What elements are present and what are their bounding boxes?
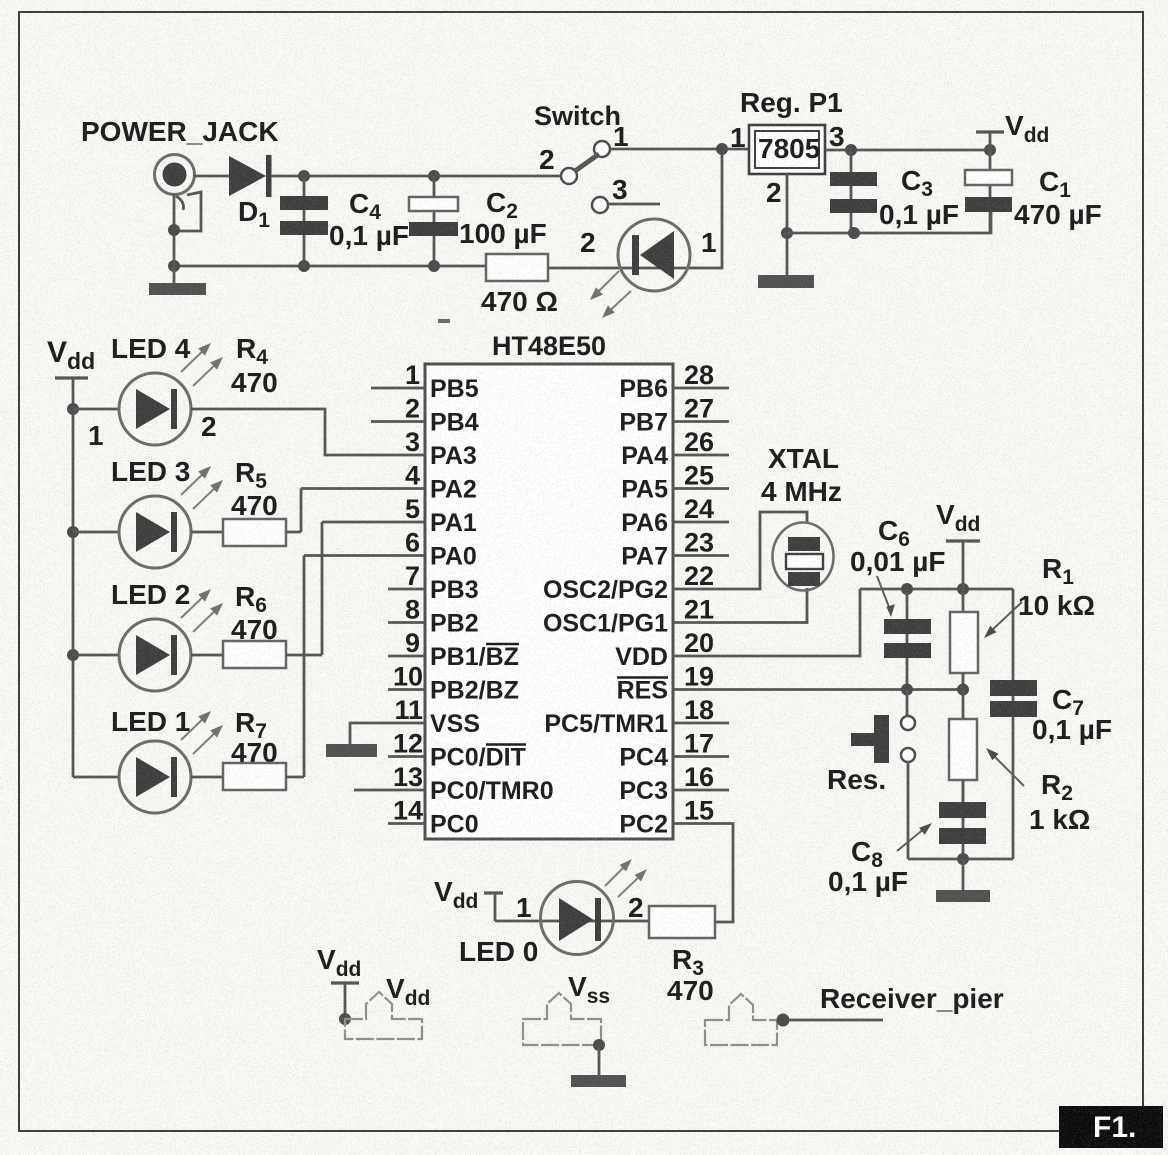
LED0 light arrows xyxy=(605,859,647,897)
wire regulator ground rail xyxy=(787,212,991,239)
ground Vss xyxy=(571,1075,626,1087)
LED4 xyxy=(73,373,191,445)
label D1 xyxy=(238,196,270,232)
arrow R2 pointer xyxy=(986,748,1024,786)
LED3 xyxy=(73,496,191,568)
wire pin15 to R3 xyxy=(673,824,733,923)
node R1 bottom xyxy=(957,684,969,696)
ground under jack xyxy=(149,283,206,295)
resistor R3 xyxy=(649,906,715,938)
crystal X1 xyxy=(773,523,834,591)
figure tag F1 xyxy=(1059,1106,1163,1148)
capacitor C6 xyxy=(884,589,931,690)
wire pin20 VDD to rail xyxy=(673,589,860,656)
pin 23 stub xyxy=(673,554,729,557)
node R1 top xyxy=(957,583,969,595)
pin 10 stub xyxy=(388,688,425,691)
ground VSS xyxy=(326,744,377,757)
wire jack down xyxy=(168,194,180,283)
node reset branch xyxy=(901,684,913,696)
pin 1 stub xyxy=(371,387,425,390)
left pin numbers xyxy=(393,360,423,826)
overline BZ pin9 xyxy=(486,643,519,646)
LED2 xyxy=(73,619,191,691)
label LED 4 xyxy=(111,333,191,364)
net tag Vss xyxy=(523,971,610,1045)
node above C2 xyxy=(428,170,440,182)
capacitor C1 xyxy=(965,150,1012,233)
wire regulator pin2 down xyxy=(781,174,793,275)
wire R5 to pin4 xyxy=(286,489,425,533)
right pin labels xyxy=(543,375,668,839)
bottom ground rail xyxy=(174,265,486,268)
label LED 0 xyxy=(459,936,538,967)
capacitor C4 xyxy=(280,176,328,266)
pin 8 stub xyxy=(388,621,425,624)
arrow C6 pointer xyxy=(877,576,895,617)
node Vss tag xyxy=(593,1039,605,1051)
node Receiver tag xyxy=(777,1014,790,1027)
wire resistor to LED and up to node xyxy=(548,149,722,268)
resistor R7 xyxy=(223,763,286,790)
LED4 pin labels xyxy=(88,411,217,451)
ground under regulator xyxy=(758,275,814,288)
label C2 value xyxy=(459,187,547,249)
pin 25 stub xyxy=(673,487,729,490)
pin 2 stub xyxy=(371,420,425,423)
label R5 value xyxy=(231,457,278,521)
label C6 value xyxy=(850,515,946,577)
label XTAL 4 MHz xyxy=(761,443,842,507)
right pin numbers xyxy=(684,360,714,826)
reset button actuator xyxy=(851,715,889,763)
wire D1 to switch xyxy=(271,175,561,178)
label R1 value xyxy=(1018,553,1095,621)
top rail right section xyxy=(860,588,1013,591)
pin 18 stub xyxy=(673,722,729,725)
pin 7 stub xyxy=(388,588,425,591)
stray mark xyxy=(438,319,450,323)
wire Receiver xyxy=(789,1019,883,1022)
overline DIT pin12 xyxy=(486,743,526,746)
label C7 value xyxy=(1032,684,1112,745)
power jack J1 xyxy=(155,155,202,232)
label R7 value xyxy=(231,707,278,768)
label Switch xyxy=(534,101,621,131)
net tag Receiver_pier xyxy=(705,994,777,1045)
wire pin22 to crystal xyxy=(673,512,807,589)
net tag Vdd xyxy=(345,973,430,1039)
wire Vss to ground xyxy=(598,1045,601,1075)
node jack bottom rail xyxy=(168,260,180,272)
label C4 value xyxy=(329,188,409,251)
label Reg. P1 xyxy=(740,87,843,118)
capacitor C3 xyxy=(830,150,877,233)
wire jack to D1 xyxy=(194,175,229,178)
pin 16 stub xyxy=(673,789,729,792)
node ground branch xyxy=(957,853,969,865)
resistor R1 xyxy=(950,589,978,690)
wire R7 to pin6 xyxy=(286,556,425,778)
wire switch to regulator xyxy=(610,148,749,151)
resistor 470 ohm xyxy=(486,254,548,281)
power symbol Vdd LED bus xyxy=(47,336,95,777)
power symbol Vdd mid xyxy=(936,499,980,589)
label HT48E50 xyxy=(492,331,606,361)
switch pin labels xyxy=(539,121,629,205)
node C6 top xyxy=(901,583,913,595)
wire LED3 to R5 xyxy=(191,531,223,534)
node switch output xyxy=(716,143,728,155)
capacitor C8 xyxy=(939,780,986,859)
label C1 value xyxy=(1014,166,1102,230)
label Receiver_pier xyxy=(820,983,1004,1014)
wire to ground right xyxy=(962,859,965,890)
node C4 bottom xyxy=(298,260,310,272)
pin 13 stub xyxy=(354,789,425,792)
power symbol Vdd LED0 xyxy=(434,876,503,921)
label R4 value xyxy=(231,333,278,398)
pin 17 stub xyxy=(673,755,729,758)
power LED light arrows xyxy=(590,271,631,318)
power LED xyxy=(618,219,690,291)
label R2 value xyxy=(1029,769,1090,835)
node LED4 branch xyxy=(67,403,79,415)
wire RES pin19 xyxy=(673,688,963,691)
LED1 xyxy=(73,741,191,813)
wire pin21 to crystal xyxy=(673,588,807,623)
label C8 value xyxy=(828,836,908,897)
node C3 top xyxy=(845,144,857,156)
resistor R5 xyxy=(223,519,286,546)
capacitor C2 xyxy=(409,176,458,266)
wire LED4 to pin3 xyxy=(191,409,425,455)
label 470 ohm xyxy=(481,286,558,317)
regulator pin labels xyxy=(730,121,845,208)
resistor R2 xyxy=(949,690,977,803)
reset switch contacts xyxy=(901,690,915,860)
label Res. xyxy=(827,764,886,795)
LED3 light arrows xyxy=(181,466,223,509)
pin 12 stub xyxy=(388,755,425,758)
node C2 bottom xyxy=(428,260,440,272)
power symbol Vdd standalone xyxy=(317,944,361,1019)
overline RES pin19 xyxy=(617,676,668,679)
label LED 3 xyxy=(111,456,190,487)
bottom rail right section xyxy=(908,858,1013,861)
ground right section xyxy=(936,890,990,902)
wire regulator output xyxy=(825,149,990,152)
wire Vdd to R3 through LED0 xyxy=(495,920,649,923)
pin 26 stub xyxy=(673,454,729,457)
label POWER_JACK xyxy=(81,116,279,147)
power symbol Vdd top right xyxy=(976,110,1049,150)
label C3 value xyxy=(879,165,959,230)
label LED 1 xyxy=(111,706,190,737)
node LED3 branch xyxy=(67,526,79,538)
node after D1 xyxy=(298,170,310,182)
node Vdd output xyxy=(984,144,996,156)
left pin labels xyxy=(430,375,554,839)
capacitor C7 xyxy=(990,589,1037,859)
resistor R6 xyxy=(223,641,286,668)
label R3 value xyxy=(667,944,714,1006)
arrow R1 pointer xyxy=(984,602,1022,638)
pin 27 stub xyxy=(673,420,729,423)
LED2 light arrows xyxy=(181,589,223,632)
label R6 value xyxy=(231,581,278,645)
power LED pin labels xyxy=(580,227,717,258)
LED4 light arrows xyxy=(181,343,223,386)
pin 9 stub xyxy=(388,655,425,658)
arrow C8 pointer xyxy=(897,823,932,851)
wire LED2 to R6 xyxy=(191,654,223,657)
wire LED1 to R7 xyxy=(191,776,223,779)
diode D1 xyxy=(229,155,272,197)
switch S1 xyxy=(561,141,660,213)
pin 24 stub xyxy=(673,521,729,524)
pin 14 stub xyxy=(388,822,425,825)
regulator U1 7805 xyxy=(749,125,825,174)
wire R6 to pin5 xyxy=(286,522,425,655)
LED1 light arrows xyxy=(181,711,223,754)
IC U2 HT48E50 body xyxy=(425,364,673,839)
pin 11 VSS wire xyxy=(350,723,425,744)
node LED2 branch xyxy=(67,649,79,661)
LED0 xyxy=(541,882,614,955)
label LED 2 xyxy=(111,579,190,610)
LED0 pin labels xyxy=(516,892,644,923)
pin 28 stub xyxy=(673,387,729,390)
node Vdd tag xyxy=(339,1013,351,1025)
